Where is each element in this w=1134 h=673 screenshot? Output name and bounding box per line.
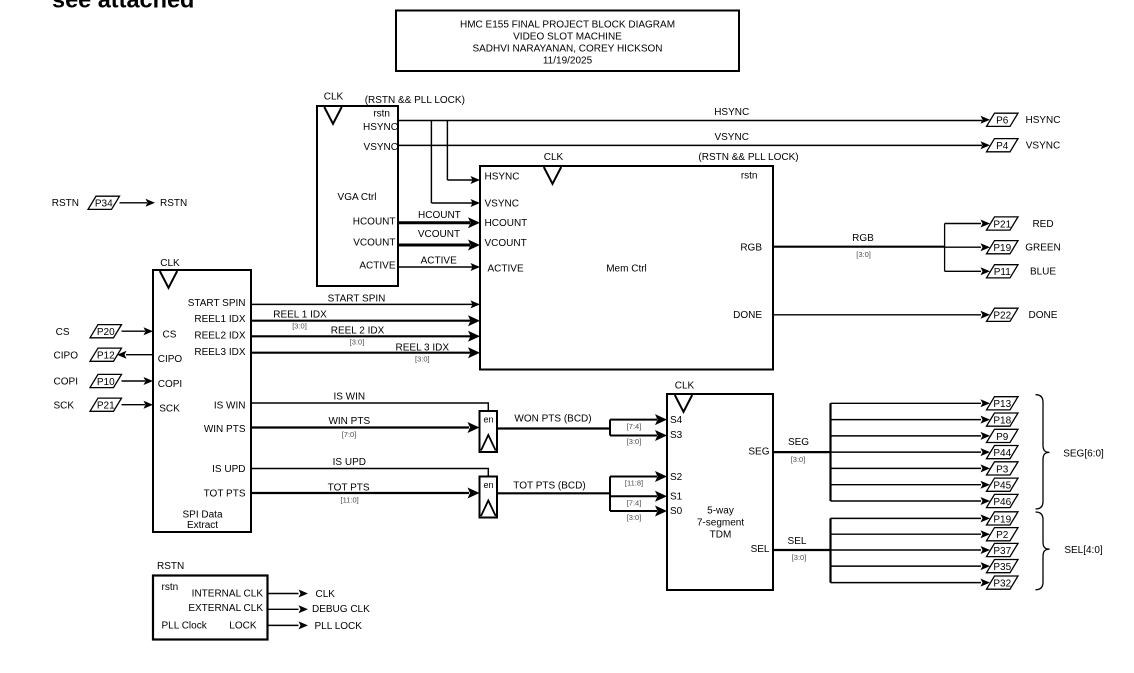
svg-text:P11: P11 bbox=[994, 267, 1011, 278]
svg-text:HCOUNT: HCOUNT bbox=[485, 218, 528, 229]
svg-text:RSTN: RSTN bbox=[160, 198, 187, 209]
wire SEL bit to P2 bbox=[831, 530, 991, 538]
wire CLK output bbox=[268, 589, 336, 600]
bus SEL (TDM to fanout) bbox=[773, 536, 831, 562]
svg-text:S0: S0 bbox=[670, 506, 683, 517]
block VGA Ctrl U1 bbox=[317, 92, 465, 286]
svg-text:CLK: CLK bbox=[316, 589, 336, 600]
bus VCOUNT (VGA to Mem) bbox=[398, 229, 480, 251]
bus HCOUNT (VGA to Mem) bbox=[398, 210, 480, 228]
svg-text:en: en bbox=[483, 415, 493, 425]
svg-text:VIDEO SLOT MACHINE: VIDEO SLOT MACHINE bbox=[513, 32, 622, 43]
bus SEG (TDM to fanout) bbox=[773, 437, 831, 464]
svg-text:VCOUNT: VCOUNT bbox=[418, 229, 460, 240]
wire GREEN branch bbox=[945, 243, 990, 251]
svg-text:P21: P21 bbox=[993, 219, 1011, 230]
svg-text:CIPO: CIPO bbox=[54, 350, 79, 361]
fork node RGB bbox=[944, 224, 946, 272]
svg-text:P18: P18 bbox=[993, 415, 1011, 426]
svg-text:rstn: rstn bbox=[162, 582, 179, 593]
wire SEG bit to P45 bbox=[831, 481, 991, 489]
bus REEL 2 IDX (SPI to Mem) bbox=[251, 326, 480, 347]
svg-text:VSYNC: VSYNC bbox=[485, 198, 519, 209]
svg-text:rstn: rstn bbox=[373, 109, 390, 120]
svg-text:[3:0]: [3:0] bbox=[350, 337, 365, 346]
note "see attached" (cut off at top) bbox=[52, 0, 194, 13]
svg-text:rstn: rstn bbox=[741, 171, 758, 182]
svg-text:INTERNAL CLK: INTERNAL CLK bbox=[192, 588, 264, 599]
pin P9 (SEG output) bbox=[987, 429, 1019, 442]
svg-text:DONE: DONE bbox=[1029, 310, 1058, 321]
bus branch [7:4] to S1 bbox=[610, 491, 667, 507]
svg-text:P3: P3 bbox=[996, 464, 1009, 475]
svg-text:REEL2 IDX: REEL2 IDX bbox=[194, 331, 245, 342]
svg-text:Mem Ctrl: Mem Ctrl bbox=[606, 264, 647, 275]
pin P21 (RED output) bbox=[987, 217, 1054, 230]
bus REEL 3 IDX (SPI to Mem) bbox=[251, 343, 480, 364]
svg-text:P19: P19 bbox=[993, 514, 1011, 525]
node SEG bus vertical bbox=[829, 403, 831, 501]
svg-text:S3: S3 bbox=[670, 430, 683, 441]
brace SEL[4:0] bbox=[1036, 512, 1103, 590]
svg-text:P19: P19 bbox=[993, 243, 1011, 254]
svg-text:P4: P4 bbox=[996, 141, 1009, 152]
svg-text:WIN PTS: WIN PTS bbox=[328, 416, 370, 427]
wire SEG bit to P46 bbox=[831, 497, 991, 505]
svg-text:see attached: see attached bbox=[52, 0, 194, 13]
fork node TOT PTS bbox=[609, 477, 611, 512]
pin P18 (SEG output) bbox=[987, 413, 1019, 426]
svg-text:SEG[6:0]: SEG[6:0] bbox=[1063, 448, 1104, 459]
wire DEBUG CLK output bbox=[268, 604, 371, 615]
svg-text:CLK: CLK bbox=[324, 92, 344, 103]
svg-text:REEL 1 IDX: REEL 1 IDX bbox=[273, 310, 327, 321]
fork node WON PTS bbox=[609, 420, 611, 436]
pin P13 (SEG output) bbox=[987, 397, 1019, 410]
svg-text:P9: P9 bbox=[996, 432, 1009, 443]
pin P11 (BLUE output) bbox=[987, 265, 1057, 278]
svg-text:VGA Ctrl: VGA Ctrl bbox=[338, 192, 377, 203]
svg-text:P32: P32 bbox=[993, 578, 1011, 589]
svg-text:IS WIN: IS WIN bbox=[214, 400, 246, 411]
wire DONE (Mem to P22) bbox=[773, 311, 990, 319]
svg-text:P45: P45 bbox=[993, 481, 1011, 492]
svg-text:en: en bbox=[483, 480, 493, 490]
bus WIN PTS (SPI to REG1) bbox=[251, 416, 480, 439]
wire SEG bit to P44 bbox=[831, 448, 991, 456]
svg-text:TOT PTS: TOT PTS bbox=[328, 482, 370, 493]
svg-text:P35: P35 bbox=[993, 562, 1011, 573]
wire SEG bit to P9 bbox=[831, 432, 991, 440]
svg-text:IS WIN: IS WIN bbox=[333, 392, 365, 403]
bus branch [11:8] to S2 bbox=[610, 471, 667, 487]
bus RGB (Mem to fork) bbox=[773, 233, 945, 259]
pin P6 (HSYNC output) bbox=[987, 113, 1061, 126]
svg-text:[11:8]: [11:8] bbox=[625, 478, 643, 487]
title box bbox=[396, 11, 739, 72]
svg-text:SEG: SEG bbox=[788, 437, 809, 448]
svg-text:REEL3 IDX: REEL3 IDX bbox=[194, 347, 245, 358]
svg-text:Extract: Extract bbox=[187, 520, 218, 531]
svg-text:SEL: SEL bbox=[788, 536, 807, 547]
svg-text:P2: P2 bbox=[996, 530, 1009, 541]
svg-text:EXTERNAL CLK: EXTERNAL CLK bbox=[188, 603, 263, 614]
pin P44 (SEG output) bbox=[987, 446, 1019, 459]
svg-text:GREEN: GREEN bbox=[1025, 243, 1061, 254]
register REG2 (TOT PTS latch, en) bbox=[480, 477, 498, 518]
svg-text:WON PTS (BCD): WON PTS (BCD) bbox=[514, 414, 591, 425]
wire SEL bit to P19 bbox=[831, 514, 991, 522]
wire BLUE branch bbox=[945, 267, 990, 275]
svg-text:TDM: TDM bbox=[710, 530, 732, 541]
svg-text:P13: P13 bbox=[993, 399, 1011, 410]
svg-text:[3:0]: [3:0] bbox=[792, 553, 807, 562]
svg-text:WIN PTS: WIN PTS bbox=[204, 424, 246, 435]
svg-text:VSYNC: VSYNC bbox=[364, 142, 398, 153]
svg-text:[3:0]: [3:0] bbox=[791, 455, 806, 464]
node SEL bus vertical bbox=[829, 518, 831, 582]
svg-text:START SPIN: START SPIN bbox=[328, 293, 386, 304]
wire IS UPD (enable of REG2) bbox=[251, 457, 488, 477]
svg-text:SADHVI NARAYANAN, COREY HICKSO: SADHVI NARAYANAN, COREY HICKSON bbox=[472, 44, 662, 55]
svg-text:S2: S2 bbox=[670, 472, 683, 483]
svg-text:VSYNC: VSYNC bbox=[1026, 141, 1060, 152]
svg-text:P20: P20 bbox=[97, 327, 115, 338]
svg-text:COPI: COPI bbox=[158, 379, 182, 390]
bus WON PTS (BCD) (REG1 to TDM fork) bbox=[497, 414, 610, 429]
svg-text:SEG: SEG bbox=[748, 447, 769, 458]
svg-text:REEL 2 IDX: REEL 2 IDX bbox=[331, 326, 385, 337]
pin P21 (SCK input) bbox=[53, 398, 153, 411]
svg-text:REEL 3 IDX: REEL 3 IDX bbox=[396, 343, 450, 354]
svg-text:P12: P12 bbox=[97, 351, 115, 362]
svg-text:RGB: RGB bbox=[740, 243, 762, 254]
svg-text:(RSTN && PLL LOCK): (RSTN && PLL LOCK) bbox=[698, 152, 798, 163]
block PLL Clock U5 bbox=[153, 561, 268, 640]
wire VSYNC (VGA to P4) bbox=[398, 132, 990, 149]
svg-text:[3:0]: [3:0] bbox=[292, 322, 307, 331]
svg-text:PLL LOCK: PLL LOCK bbox=[315, 621, 363, 632]
svg-text:P46: P46 bbox=[993, 497, 1011, 508]
svg-text:S4: S4 bbox=[670, 415, 683, 426]
svg-text:(RSTN && PLL LOCK): (RSTN && PLL LOCK) bbox=[365, 95, 465, 106]
svg-text:VCOUNT: VCOUNT bbox=[485, 238, 527, 249]
bus TOT PTS (BCD) (REG2 to TDM fork) bbox=[497, 481, 610, 494]
pin P2 (SEL output) bbox=[987, 528, 1019, 541]
wire SEL bit to P35 bbox=[831, 562, 991, 570]
svg-text:RSTN: RSTN bbox=[157, 561, 184, 572]
svg-text:P37: P37 bbox=[993, 546, 1011, 557]
svg-text:LOCK: LOCK bbox=[229, 621, 257, 632]
pin P3 (SEG output) bbox=[987, 462, 1019, 475]
pin P45 (SEG output) bbox=[987, 478, 1019, 491]
svg-text:7-segment: 7-segment bbox=[697, 518, 744, 529]
block 5-way 7-segment TDM U4 bbox=[667, 381, 773, 590]
svg-text:RSTN: RSTN bbox=[52, 198, 79, 209]
svg-text:[3:0]: [3:0] bbox=[856, 250, 871, 259]
svg-text:P10: P10 bbox=[97, 377, 115, 388]
svg-text:HSYNC: HSYNC bbox=[714, 107, 749, 118]
pin P19 (GREEN output) bbox=[987, 241, 1061, 254]
wire HSYNC (VGA to P6) bbox=[398, 107, 990, 124]
svg-text:[7:4]: [7:4] bbox=[627, 422, 642, 431]
svg-text:HCOUNT: HCOUNT bbox=[353, 216, 396, 227]
svg-text:[11:0]: [11:0] bbox=[340, 495, 358, 504]
svg-text:[3:0]: [3:0] bbox=[415, 354, 430, 363]
pin P20 (CS input) bbox=[56, 325, 153, 338]
svg-text:CIPO: CIPO bbox=[158, 354, 183, 365]
svg-text:HSYNC: HSYNC bbox=[363, 122, 398, 133]
pin P46 (SEG output) bbox=[987, 494, 1019, 507]
pin P37 (SEL output) bbox=[987, 543, 1019, 556]
svg-text:BLUE: BLUE bbox=[1030, 267, 1056, 278]
wire HSYNC branch into Mem Ctrl bbox=[447, 121, 480, 185]
wire SEG bit to P18 bbox=[831, 416, 991, 424]
svg-text:ACTIVE: ACTIVE bbox=[359, 261, 395, 272]
svg-text:VCOUNT: VCOUNT bbox=[353, 237, 395, 248]
bus branch [3:0] to S0 bbox=[610, 506, 667, 522]
svg-text:P21: P21 bbox=[97, 401, 115, 412]
brace SEG[6:0] bbox=[1036, 395, 1105, 509]
pin P12 (CIPO output) bbox=[54, 348, 153, 361]
pin P4 (VSYNC output) bbox=[987, 139, 1061, 152]
wire VSYNC branch into Mem Ctrl bbox=[431, 121, 480, 208]
block Mem Ctrl U2 bbox=[480, 152, 799, 369]
svg-text:IS UPD: IS UPD bbox=[333, 457, 366, 468]
bus branch [3:0] to S3 bbox=[610, 430, 667, 446]
svg-text:CLK: CLK bbox=[544, 152, 564, 163]
block SPI Data Extract U3 bbox=[153, 258, 251, 532]
pin P35 (SEL output) bbox=[987, 560, 1019, 573]
svg-text:P44: P44 bbox=[993, 448, 1011, 459]
wire SEG bit to P3 bbox=[831, 464, 991, 472]
svg-text:VSYNC: VSYNC bbox=[714, 132, 748, 143]
svg-text:[3:0]: [3:0] bbox=[627, 437, 642, 446]
svg-text:HMC E155 FINAL PROJECT BLOCK D: HMC E155 FINAL PROJECT BLOCK DIAGRAM bbox=[460, 20, 675, 31]
pin P10 (COPI input) bbox=[54, 374, 153, 387]
svg-text:SPI Data: SPI Data bbox=[182, 509, 222, 520]
wire ACTIVE (VGA to Mem) bbox=[398, 256, 480, 271]
svg-text:S1: S1 bbox=[670, 492, 683, 503]
svg-text:[7:0]: [7:0] bbox=[342, 430, 357, 439]
svg-text:DEBUG CLK: DEBUG CLK bbox=[312, 604, 370, 615]
wire SEL bit to P32 bbox=[831, 579, 991, 587]
svg-text:RED: RED bbox=[1032, 219, 1053, 230]
svg-text:[7:4]: [7:4] bbox=[627, 498, 642, 507]
pin P32 (SEL output) bbox=[987, 576, 1019, 589]
svg-text:ACTIVE: ACTIVE bbox=[488, 263, 524, 274]
svg-text:CLK: CLK bbox=[675, 381, 695, 392]
bus TOT PTS (SPI to REG2) bbox=[251, 482, 480, 504]
svg-text:DONE: DONE bbox=[733, 310, 762, 321]
wire IS WIN (enable of REG1) bbox=[251, 392, 488, 411]
svg-text:P22: P22 bbox=[993, 311, 1011, 322]
bus REEL 1 IDX (SPI to Mem) bbox=[251, 310, 480, 331]
register REG1 (WON PTS latch, en) bbox=[480, 411, 498, 452]
svg-text:SEL[4:0]: SEL[4:0] bbox=[1064, 545, 1103, 556]
bus branch [7:4] to S4 bbox=[610, 414, 667, 431]
svg-text:SCK: SCK bbox=[159, 404, 180, 415]
svg-text:COPI: COPI bbox=[54, 377, 78, 388]
svg-text:[3:0]: [3:0] bbox=[627, 513, 642, 522]
wire SEG bit to P13 bbox=[831, 399, 991, 407]
svg-text:RGB: RGB bbox=[852, 233, 874, 244]
svg-text:HSYNC: HSYNC bbox=[1025, 115, 1060, 126]
svg-text:P6: P6 bbox=[996, 116, 1009, 127]
wire START SPIN (SPI to Mem) bbox=[251, 293, 480, 308]
svg-text:SEL: SEL bbox=[751, 544, 770, 555]
wire PLL LOCK output bbox=[268, 621, 363, 632]
svg-text:ACTIVE: ACTIVE bbox=[421, 256, 457, 267]
svg-text:CS: CS bbox=[56, 327, 70, 338]
svg-text:IS UPD: IS UPD bbox=[212, 464, 245, 475]
svg-text:CS: CS bbox=[163, 330, 177, 341]
svg-text:HCOUNT: HCOUNT bbox=[418, 210, 461, 221]
svg-text:START SPIN: START SPIN bbox=[188, 298, 246, 309]
svg-text:SCK: SCK bbox=[53, 400, 74, 411]
pin P34 (RSTN input) bbox=[52, 196, 187, 209]
svg-text:TOT PTS (BCD): TOT PTS (BCD) bbox=[513, 481, 585, 492]
svg-text:TOT PTS: TOT PTS bbox=[204, 488, 246, 499]
wire RED branch bbox=[945, 220, 990, 228]
svg-text:P34: P34 bbox=[95, 199, 113, 210]
svg-text:HSYNC: HSYNC bbox=[485, 172, 520, 183]
svg-text:REEL1 IDX: REEL1 IDX bbox=[194, 314, 245, 325]
wire SEL bit to P37 bbox=[831, 546, 991, 554]
svg-text:CLK: CLK bbox=[160, 258, 180, 269]
svg-text:11/19/2025: 11/19/2025 bbox=[543, 56, 593, 67]
svg-text:5-way: 5-way bbox=[707, 506, 734, 517]
pin P19 (SEL output) bbox=[987, 512, 1019, 525]
svg-text:PLL Clock: PLL Clock bbox=[162, 621, 208, 632]
pin P22 (DONE output) bbox=[987, 308, 1058, 321]
